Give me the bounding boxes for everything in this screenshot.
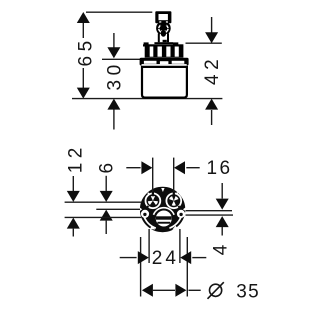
head neck bbox=[160, 23, 166, 26]
boss center mark bbox=[162, 30, 165, 32]
svg-text:12: 12 bbox=[66, 143, 87, 173]
dimension 30 bottom arrow bbox=[107, 99, 120, 130]
dim 16 extension line left x152.7 bbox=[152, 158, 154, 192]
cartridge body bbox=[142, 67, 187, 98]
svg-text:16: 16 bbox=[207, 158, 233, 179]
dim 16 extension line right x173.7 bbox=[173, 158, 175, 192]
dim 16 left arrow bbox=[126, 161, 152, 174]
extension line flange top y59.3 bbox=[102, 58, 141, 60]
extension line spline top y43.2 bbox=[186, 42, 222, 44]
small circle left bbox=[141, 210, 149, 218]
bottom port lower shade bbox=[157, 225, 170, 230]
line B y209.3 bbox=[96, 208, 140, 210]
head lower dashes bbox=[159, 21, 161, 22]
flange bbox=[140, 58, 189, 66]
top notch bbox=[161, 188, 164, 192]
port top-right wedges bbox=[169, 196, 178, 206]
cartridge boss circle bbox=[156, 21, 171, 36]
dim 24 left arrow bbox=[120, 251, 149, 264]
spline teeth bbox=[145, 46, 184, 57]
bottom extension line y98.6 bbox=[72, 98, 222, 100]
dimension 42 top arrow bbox=[205, 17, 218, 43]
port top-right ring bbox=[166, 193, 181, 208]
stem step bar bbox=[154, 42, 173, 44]
inner vertical right x179.9 bbox=[179, 229, 181, 263]
head window bbox=[159, 14, 168, 20]
svg-text:4: 4 bbox=[211, 244, 232, 255]
svg-text:6: 6 bbox=[97, 163, 118, 174]
dim 24 right arrow bbox=[180, 251, 206, 264]
bottom view outer circle bbox=[141, 188, 184, 231]
svg-text:24: 24 bbox=[152, 248, 179, 269]
bottom port band bbox=[156, 216, 172, 219]
dim 6 bottom arrow bbox=[100, 210, 113, 234]
line E y215.1 bbox=[186, 214, 234, 216]
dimension 30 top arrow bbox=[107, 33, 120, 58]
inner vertical left x149.1 bbox=[148, 229, 150, 263]
port top-left ring crossing bbox=[152, 192, 154, 196]
flange slots bbox=[144, 61, 184, 64]
dimension 42 bottom arrow bbox=[205, 99, 218, 125]
cartridge head bbox=[155, 11, 171, 23]
dim 12 top arrow bbox=[67, 176, 80, 202]
svg-text:30: 30 bbox=[105, 60, 126, 90]
dim 6 top arrow bbox=[100, 176, 113, 202]
dim 4 bottom arrow bbox=[216, 216, 229, 235]
port top-left wedges bbox=[148, 196, 158, 205]
diameter symbol bbox=[208, 282, 224, 299]
inner ring arc bottom-left bbox=[144, 215, 156, 228]
outer vertical right x187.3 bbox=[186, 237, 188, 297]
dim 12 bottom arrow bbox=[67, 218, 80, 237]
flange white strip bbox=[142, 64, 187, 66]
inner ring arc bottom-right bbox=[169, 215, 181, 228]
line A y202.2 bbox=[65, 201, 142, 203]
small circle right bbox=[177, 210, 185, 218]
bottom port wedge left bbox=[150, 226, 156, 230]
outer vertical left x140.6 bbox=[140, 237, 142, 297]
port top-left ring bbox=[146, 193, 161, 208]
spline cap bumps bbox=[144, 42, 149, 44]
bottom port disc bbox=[156, 211, 172, 227]
dim 35 right arrow bbox=[175, 284, 200, 297]
stem tab bbox=[163, 40, 167, 42]
dim 35 left arrow bbox=[142, 284, 175, 297]
white specks bbox=[148, 193, 150, 195]
dimension 65 line bbox=[77, 12, 90, 99]
extension line top of stem y12 bbox=[86, 11, 152, 13]
dim 16 right arrow bbox=[174, 161, 200, 174]
svg-text:42: 42 bbox=[202, 55, 223, 85]
bottom port thin band bbox=[157, 222, 170, 224]
svg-text:35: 35 bbox=[236, 281, 260, 302]
dim 4 top arrow bbox=[216, 183, 229, 210]
bottom port outer arc bbox=[154, 208, 175, 215]
cartridge stem bbox=[160, 34, 168, 43]
right edge notch bbox=[183, 207, 186, 211]
boss highlight ring bbox=[159, 29, 168, 33]
left edge notch bbox=[140, 207, 143, 211]
line D y210.7 bbox=[186, 210, 233, 212]
spline cap bbox=[143, 44, 183, 46]
line C y217.4 bbox=[65, 216, 142, 218]
svg-text:65: 65 bbox=[75, 36, 96, 66]
port top-right ring crossing bbox=[173, 192, 175, 196]
bottom port wedge right bbox=[172, 226, 178, 230]
